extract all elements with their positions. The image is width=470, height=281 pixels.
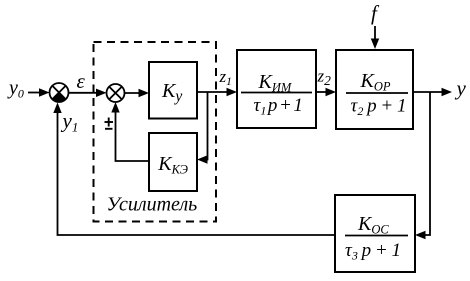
svg-text:ε: ε — [77, 69, 86, 93]
svg-text:Усилитель: Усилитель — [107, 194, 198, 216]
summing junction S2 — [107, 84, 125, 102]
block KOR — [336, 50, 413, 129]
wire S1 to S2 — [69, 89, 107, 97]
svg-text:y: y — [455, 76, 467, 100]
wire KY to KIM — [197, 88, 237, 96]
wire S2 to KY — [125, 89, 150, 97]
wire y0 input — [28, 88, 50, 96]
label plus-minus — [105, 118, 114, 129]
summing junction S1 — [50, 83, 69, 102]
node z1 branch to KKE — [197, 92, 208, 164]
amplifier dashed box — [94, 42, 217, 222]
wire feedback KOS to S1 — [53, 103, 335, 236]
wire output branch to KOS — [415, 92, 430, 239]
wire KIM to KOR — [316, 88, 336, 96]
wire f input — [371, 26, 379, 49]
block KIM — [237, 50, 316, 128]
block KY — [149, 62, 197, 119]
block KKE — [149, 133, 197, 191]
wire KOR output — [413, 88, 452, 96]
wire KKE to S2 — [111, 102, 149, 161]
block KOS — [335, 195, 415, 272]
